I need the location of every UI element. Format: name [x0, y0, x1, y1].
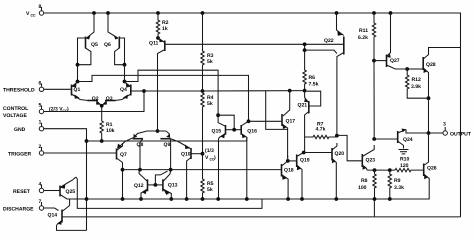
wire 2/3 Vcc node to divider	[144, 90, 203, 92]
node Q7 collector junction	[121, 168, 125, 172]
wire Q27 base line	[374, 60, 386, 62]
node R9 bottom on bus	[388, 197, 392, 201]
wire flip-flop feed H1 to Q15	[125, 70, 219, 115]
node Q2 Q3 emitter junction	[100, 104, 104, 108]
svg-text:R9: R9	[394, 178, 401, 184]
node rail junction above Q5	[92, 11, 96, 15]
wire Q14 emitter hook to GND vertical	[57, 226, 87, 231]
node Q25 collector junction	[85, 197, 89, 201]
svg-text:Q8: Q8	[137, 142, 144, 148]
node rail junction above R3	[201, 11, 205, 15]
resistor R3 5k	[201, 13, 214, 68]
transistor Q20	[332, 143, 344, 199]
svg-text:DISCHARGE: DISCHARGE	[3, 207, 34, 213]
node base tie drop junction	[232, 128, 236, 132]
svg-text:2: 2	[39, 144, 42, 150]
svg-text:Q28: Q28	[426, 62, 436, 68]
wire top Vcc rail	[44, 12, 458, 14]
resistor R1 10k	[100, 121, 115, 141]
node Q18 emitter on bus	[286, 197, 290, 201]
transistor Q28	[423, 48, 460, 99]
svg-text:4.7k: 4.7k	[316, 127, 326, 133]
svg-text:Q16: Q16	[247, 128, 257, 134]
resistor R4 5k	[201, 91, 214, 110]
wire line A right end up to Q26 emitter	[375, 180, 430, 199]
svg-text:Q7: Q7	[120, 152, 127, 158]
svg-text:RESET: RESET	[13, 189, 31, 195]
svg-text:THRESHOLD: THRESHOLD	[3, 88, 35, 94]
node Q11 collector to Q8 Q9 emitter tie	[156, 129, 160, 133]
svg-text:6: 6	[39, 81, 42, 87]
wire Q6 node down to Q4 emitter	[124, 65, 126, 82]
svg-text:7.5k: 7.5k	[309, 82, 319, 88]
node Q20 emitter on bus	[334, 197, 338, 201]
node Q4 emitter junction	[123, 80, 127, 84]
svg-text:3.3k: 3.3k	[394, 185, 404, 191]
node R2 bottom Q11 emitter	[156, 36, 160, 40]
transistor Q4	[115, 82, 131, 101]
node divider tap 2/3	[201, 89, 205, 93]
wire y90 branch down to Q17 emitter net	[266, 91, 288, 130]
svg-text:100: 100	[358, 185, 367, 191]
svg-text:5k: 5k	[207, 101, 213, 107]
wire Q8 emitter into Q7 top	[117, 138, 134, 149]
node Q7 collector on bus	[121, 197, 125, 201]
terminal VCC pin 8	[26, 4, 44, 18]
node R12 bottom Q28 emitter junction	[427, 96, 431, 100]
svg-text:5k: 5k	[207, 59, 213, 65]
node Q17 collector junction on y90	[288, 89, 292, 93]
resistor R8 100	[358, 170, 376, 199]
terminal RESET pin 4	[13, 182, 44, 196]
transistor Q11	[149, 38, 165, 131]
node Q6 base-collector junction	[123, 63, 127, 67]
wire Q24 base line	[374, 138, 397, 140]
svg-text:Q17: Q17	[286, 119, 296, 125]
svg-text:4: 4	[39, 182, 42, 188]
wire ground net line	[87, 140, 247, 142]
resistor R9 3.3k	[388, 170, 404, 199]
node Q9 Q13 collector junction	[169, 168, 173, 172]
wire GND pin to ground net	[44, 129, 87, 231]
node Q1 emitter junction	[76, 80, 80, 84]
wire net y90 line from Q4 base node	[203, 90, 305, 92]
wire Q16 emitter to ground net	[246, 137, 248, 199]
resistor R5 5k	[201, 179, 214, 199]
wire base line riser to R8 node	[373, 199, 375, 217]
svg-text:Q5: Q5	[91, 42, 98, 48]
wire emitter bus line A	[87, 198, 375, 200]
wire base line right section to Vcc riser	[374, 216, 460, 218]
wire Q9 collector into Q10 top	[171, 139, 191, 149]
svg-text:Q23: Q23	[366, 158, 376, 164]
svg-text:Q2: Q2	[92, 96, 99, 102]
svg-text:OUTPUT: OUTPUT	[450, 132, 472, 138]
wire Q25 emitter loop down right side	[76, 177, 262, 208]
svg-text:TRIGGER: TRIGGER	[8, 152, 32, 158]
terminal CONTROL VOLTAGE pin 5	[3, 103, 69, 120]
wire Vcc rail right end down right edge	[458, 13, 461, 217]
node rail junction above Q27	[389, 11, 393, 15]
wire Q19 collector node to Q20 base	[304, 152, 332, 154]
wire H1 node over to base tie	[218, 115, 234, 130]
wire Q21 base diode loop	[307, 91, 321, 106]
node output junction	[427, 131, 431, 135]
svg-text:Q27: Q27	[390, 58, 400, 64]
wire Q23 emitter bus to R10	[367, 169, 395, 171]
ground symbol below Q24	[399, 150, 409, 154]
resistor R10 120 horizontal	[395, 157, 423, 172]
svg-text:R10: R10	[400, 157, 410, 163]
svg-text:Q15: Q15	[212, 128, 222, 134]
node R6 top on Q22 base line	[303, 42, 307, 46]
wire discharge pin to Q14 collector	[44, 208, 59, 211]
svg-text:8: 8	[39, 4, 42, 10]
wire threshold to Q1 base	[44, 88, 71, 90]
svg-text:(1/3: (1/3	[205, 148, 214, 154]
svg-text:V: V	[26, 11, 30, 17]
wire Q28 base line	[407, 68, 423, 70]
svg-text:GND: GND	[14, 127, 26, 133]
svg-text:V: V	[205, 155, 209, 161]
node Q10 collector on bus	[185, 197, 189, 201]
node Q13 emitter on bus	[169, 197, 173, 201]
node R8 bottom on bus	[373, 197, 377, 201]
resistor R2 1k	[156, 13, 168, 38]
svg-text:6.2k: 6.2k	[358, 35, 368, 41]
node Q4 base junction	[142, 89, 146, 93]
node Q18 collector junction	[286, 159, 290, 163]
node Q12 emitter on bus	[139, 197, 143, 201]
svg-text:120: 120	[400, 163, 409, 169]
wire R4 bottom to 1/3 tap	[202, 110, 204, 179]
transistor Q8	[133, 131, 147, 170]
wire Q22 collector node to Q23 base	[337, 135, 362, 160]
svg-text:7: 7	[39, 199, 42, 205]
transistor Q16	[241, 121, 257, 141]
wire Q18 collector to Q19 base	[288, 160, 296, 162]
wire Q5 node down to Q1 emitter	[77, 65, 79, 82]
transistor Q17	[282, 91, 295, 158]
svg-text:1k: 1k	[162, 26, 168, 32]
svg-text:Q6: Q6	[104, 42, 111, 48]
node Q16 emitter on bus	[245, 197, 249, 201]
wire Q4 base line	[132, 90, 145, 92]
resistor R6 7.5k	[303, 44, 319, 89]
label 1/3 Vcc	[205, 148, 216, 162]
resistor R7 4.7k horizontal	[305, 121, 337, 138]
svg-text:Q13: Q13	[168, 182, 178, 188]
wire Q10 base to one third tap	[192, 153, 203, 155]
svg-text:5: 5	[39, 103, 42, 109]
transistor Q25	[60, 177, 76, 199]
node Q15 emitter on bus	[216, 197, 220, 201]
svg-text:Q3: Q3	[106, 96, 113, 102]
node Q8 collector junction	[138, 168, 142, 172]
transistor Q18	[282, 161, 294, 199]
transistor Q19	[297, 153, 310, 200]
svg-text:Q21: Q21	[298, 103, 308, 109]
transistor Q3	[102, 96, 116, 106]
transistor Q7	[117, 143, 127, 199]
transistor Q15	[212, 115, 226, 138]
svg-text:10k: 10k	[106, 128, 115, 134]
svg-text:Q22: Q22	[324, 38, 334, 44]
transistor Q26	[424, 136, 437, 180]
svg-text:3: 3	[443, 122, 446, 128]
node Q22 collector feedback junction on R6 column	[303, 48, 307, 52]
wire base tie to Q13 collector diode link	[155, 171, 167, 185]
transistor Q27	[387, 13, 407, 69]
transistor Q1	[72, 82, 89, 101]
node divider tap 1/3	[201, 152, 205, 156]
transistor Q9	[160, 131, 170, 170]
wire Q17 emitter to Q18 collector node	[287, 155, 289, 161]
node H1 junction above Q15	[216, 113, 220, 117]
svg-text:R11: R11	[359, 28, 368, 34]
node R5 bottom on emitter bus	[201, 197, 205, 201]
node Q19 emitter on bus	[300, 197, 304, 201]
terminal THRESHOLD pin 6	[3, 81, 44, 94]
transistor Q22	[324, 13, 344, 136]
terminal TRIGGER pin 2	[8, 144, 44, 158]
wire Q15 Q16 base tie	[226, 129, 241, 131]
svg-text:Q9: Q9	[164, 142, 171, 148]
wire output riser	[428, 98, 430, 136]
node R8 top junction	[373, 168, 377, 172]
node R9 top junction	[388, 168, 392, 172]
wire Q15 emitter down to bus	[218, 139, 220, 200]
transistor Q10	[181, 148, 191, 199]
node Q23 collector Q24 base junction	[372, 137, 376, 141]
wire output line from Q24 emitter	[406, 130, 443, 134]
svg-text:Q18: Q18	[284, 168, 294, 174]
svg-text:R8: R8	[361, 178, 368, 184]
svg-text:): )	[214, 155, 216, 161]
transistor Q13	[163, 171, 178, 199]
svg-text:VOLTAGE: VOLTAGE	[3, 113, 27, 119]
transistor Q21	[298, 91, 309, 153]
svg-text:1: 1	[39, 120, 42, 126]
node Q5 base-collector junction	[76, 63, 80, 67]
svg-text:Q11: Q11	[149, 41, 159, 47]
wire reset to Q25 base	[44, 190, 60, 192]
wire emitter node down to R1	[101, 106, 103, 121]
svg-text:R6: R6	[309, 75, 316, 81]
terminal DISCHARGE pin 7	[3, 199, 44, 213]
svg-text:Q25: Q25	[66, 189, 76, 195]
terminal GND pin 1	[14, 120, 44, 133]
node R12 top junction	[405, 67, 409, 71]
svg-text:CONTROL: CONTROL	[3, 106, 28, 112]
svg-text:Q20: Q20	[335, 151, 345, 157]
node rail junction above R2	[156, 11, 160, 15]
svg-text:5k: 5k	[207, 187, 213, 193]
wire Q8 Q9 emitter tie bar	[147, 130, 166, 132]
resistor R11 6.2k	[358, 13, 376, 61]
wire R3 bottom to tap	[202, 68, 204, 91]
node rail junction above Q6	[106, 11, 110, 15]
svg-text:3.9k: 3.9k	[411, 84, 421, 90]
wire trigger to Q7 base	[44, 152, 116, 154]
node R1 bottom on ground line	[100, 139, 104, 143]
svg-text:R12: R12	[412, 77, 422, 83]
svg-text:Q12: Q12	[134, 183, 144, 189]
node rail junction above Q22	[335, 11, 339, 15]
svg-text:Q10: Q10	[181, 151, 191, 157]
wire Q12 Q13 base tie	[148, 184, 163, 186]
wire Q25 collector line	[73, 198, 87, 200]
transistor Q24	[398, 129, 413, 149]
transistor Q6	[104, 13, 125, 65]
svg-text:Q24: Q24	[403, 137, 413, 143]
wire flip-flop feed H2 to Q16	[78, 75, 249, 121]
svg-text:Q19: Q19	[300, 158, 310, 164]
node Q19 collector Q21 collector junction	[302, 151, 306, 155]
svg-text:CC: CC	[31, 14, 37, 18]
transistor Q5	[78, 13, 98, 65]
node rail junction above R11	[372, 11, 376, 15]
terminal OUTPUT pin 3	[443, 122, 472, 138]
wire Q22 collector to R6 column diode link	[305, 50, 337, 53]
node R6 bottom Q21 emitter junction	[303, 89, 307, 93]
resistor R12 3.9k	[406, 69, 429, 98]
svg-text:Q26: Q26	[427, 166, 437, 172]
wire comparator output line to Q18 base	[123, 169, 282, 171]
node base tie junction	[154, 183, 158, 187]
node Q22 collector R7 junction	[335, 134, 339, 138]
wire Q14 base long line	[62, 216, 374, 218]
transistor Q2	[88, 96, 102, 106]
node Q16 collector junction	[247, 119, 251, 123]
wire control voltage to Q4 base node	[44, 91, 144, 112]
svg-text:Q14: Q14	[48, 213, 58, 219]
wire Q16 collector node to Q17 base	[249, 120, 282, 122]
svg-text:Q1: Q1	[74, 87, 81, 93]
svg-text:Q4: Q4	[120, 87, 127, 93]
wire Q11 base line to Q22 base	[165, 43, 344, 45]
transistor Q23	[362, 145, 375, 170]
node GND net junction	[85, 139, 89, 143]
wire R11 node down to Q23 collector node	[373, 61, 375, 139]
transistor Q14	[48, 199, 70, 226]
node R11 bottom Q27 base	[372, 59, 376, 63]
transistor Q12	[134, 171, 148, 199]
